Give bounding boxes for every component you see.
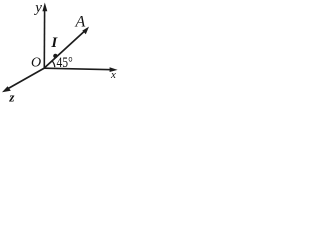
svg-text:I: I bbox=[50, 35, 58, 51]
svg-text:y: y bbox=[33, 0, 42, 16]
svg-text:45°: 45° bbox=[57, 54, 73, 71]
svg-text:x: x bbox=[110, 69, 116, 81]
svg-text:O: O bbox=[31, 55, 41, 70]
svg-text:z: z bbox=[8, 90, 15, 103]
svg-text:A: A bbox=[75, 14, 86, 31]
